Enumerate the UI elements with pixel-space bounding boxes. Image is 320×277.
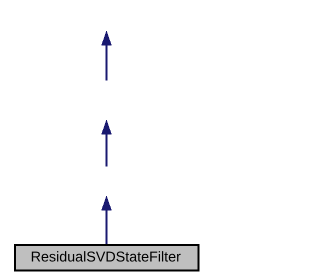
class box ResidualSVDStateFilter: [15, 245, 199, 271]
inheritance arrow A2 (middle): [101, 120, 112, 167]
inheritance arrow A3 (bottom): [101, 196, 112, 245]
inheritance arrow A1 (top): [101, 31, 112, 81]
